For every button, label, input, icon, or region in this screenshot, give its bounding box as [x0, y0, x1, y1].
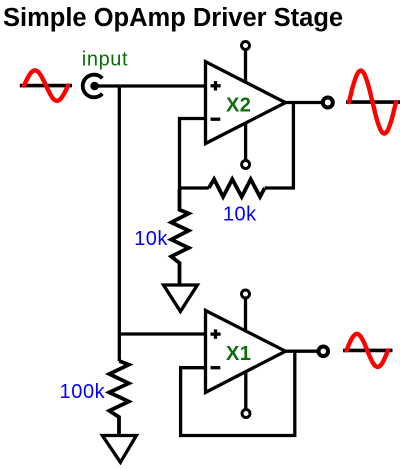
X2 bottom power terminal [242, 161, 250, 169]
svg-text:100k: 100k [60, 381, 106, 403]
resistor R1 10k horizontal zigzag [209, 179, 265, 197]
X2 minus input symbol [211, 118, 221, 121]
svg-text:10k: 10k [134, 228, 168, 250]
X2 output sine wave [349, 71, 396, 134]
wire X2 bottom power pin [244, 103, 247, 161]
X1 top power terminal [242, 290, 250, 298]
wire X2 - stub [180, 119, 206, 190]
op-amp X1 triangle [206, 311, 286, 393]
X1 plus input symbol [211, 329, 221, 338]
wire X2 top power pin [244, 48, 247, 103]
wire X1 output [286, 350, 318, 353]
X2 plus input symbol [211, 81, 221, 90]
op-amp X2 triangle [206, 62, 286, 144]
wire branch to X1 + [119, 332, 205, 335]
X2 output sine baseline [346, 100, 400, 104]
wire X1 feedback loop [181, 351, 295, 435]
ground for R2 [164, 285, 198, 311]
resistor R3 100k vertical zigzag [109, 361, 129, 436]
wire input to X2 + [94, 84, 206, 87]
input source baseline [20, 84, 72, 88]
wire X2 feedback vertical [292, 103, 295, 190]
svg-text:10k: 10k [223, 204, 257, 226]
resistor R2 10k vertical zigzag [171, 190, 189, 286]
ground for R3 [102, 436, 136, 463]
wire node to R1 [178, 186, 209, 189]
X1 output terminal [319, 347, 329, 357]
wire feedback horizontal lead [265, 186, 295, 189]
X1 bottom power terminal [242, 410, 250, 418]
X1 output sine baseline [343, 349, 393, 353]
input sine wave [24, 70, 68, 100]
X1 output sine wave [347, 334, 389, 367]
svg-text:Simple OpAmp Driver Stage: Simple OpAmp Driver Stage [3, 4, 343, 32]
wire X1 bottom power pin [244, 352, 247, 410]
svg-text:X2: X2 [226, 94, 251, 116]
X2 top power terminal [242, 42, 250, 50]
svg-text:input: input [82, 48, 128, 70]
wire X2 output [286, 101, 322, 104]
wire trunk vertical [118, 86, 121, 361]
X1 minus input symbol [211, 366, 221, 369]
svg-text:X1: X1 [226, 343, 251, 365]
X2 output terminal [323, 98, 333, 108]
input connector jack [83, 75, 103, 98]
wire X1 top power pin [244, 297, 247, 352]
